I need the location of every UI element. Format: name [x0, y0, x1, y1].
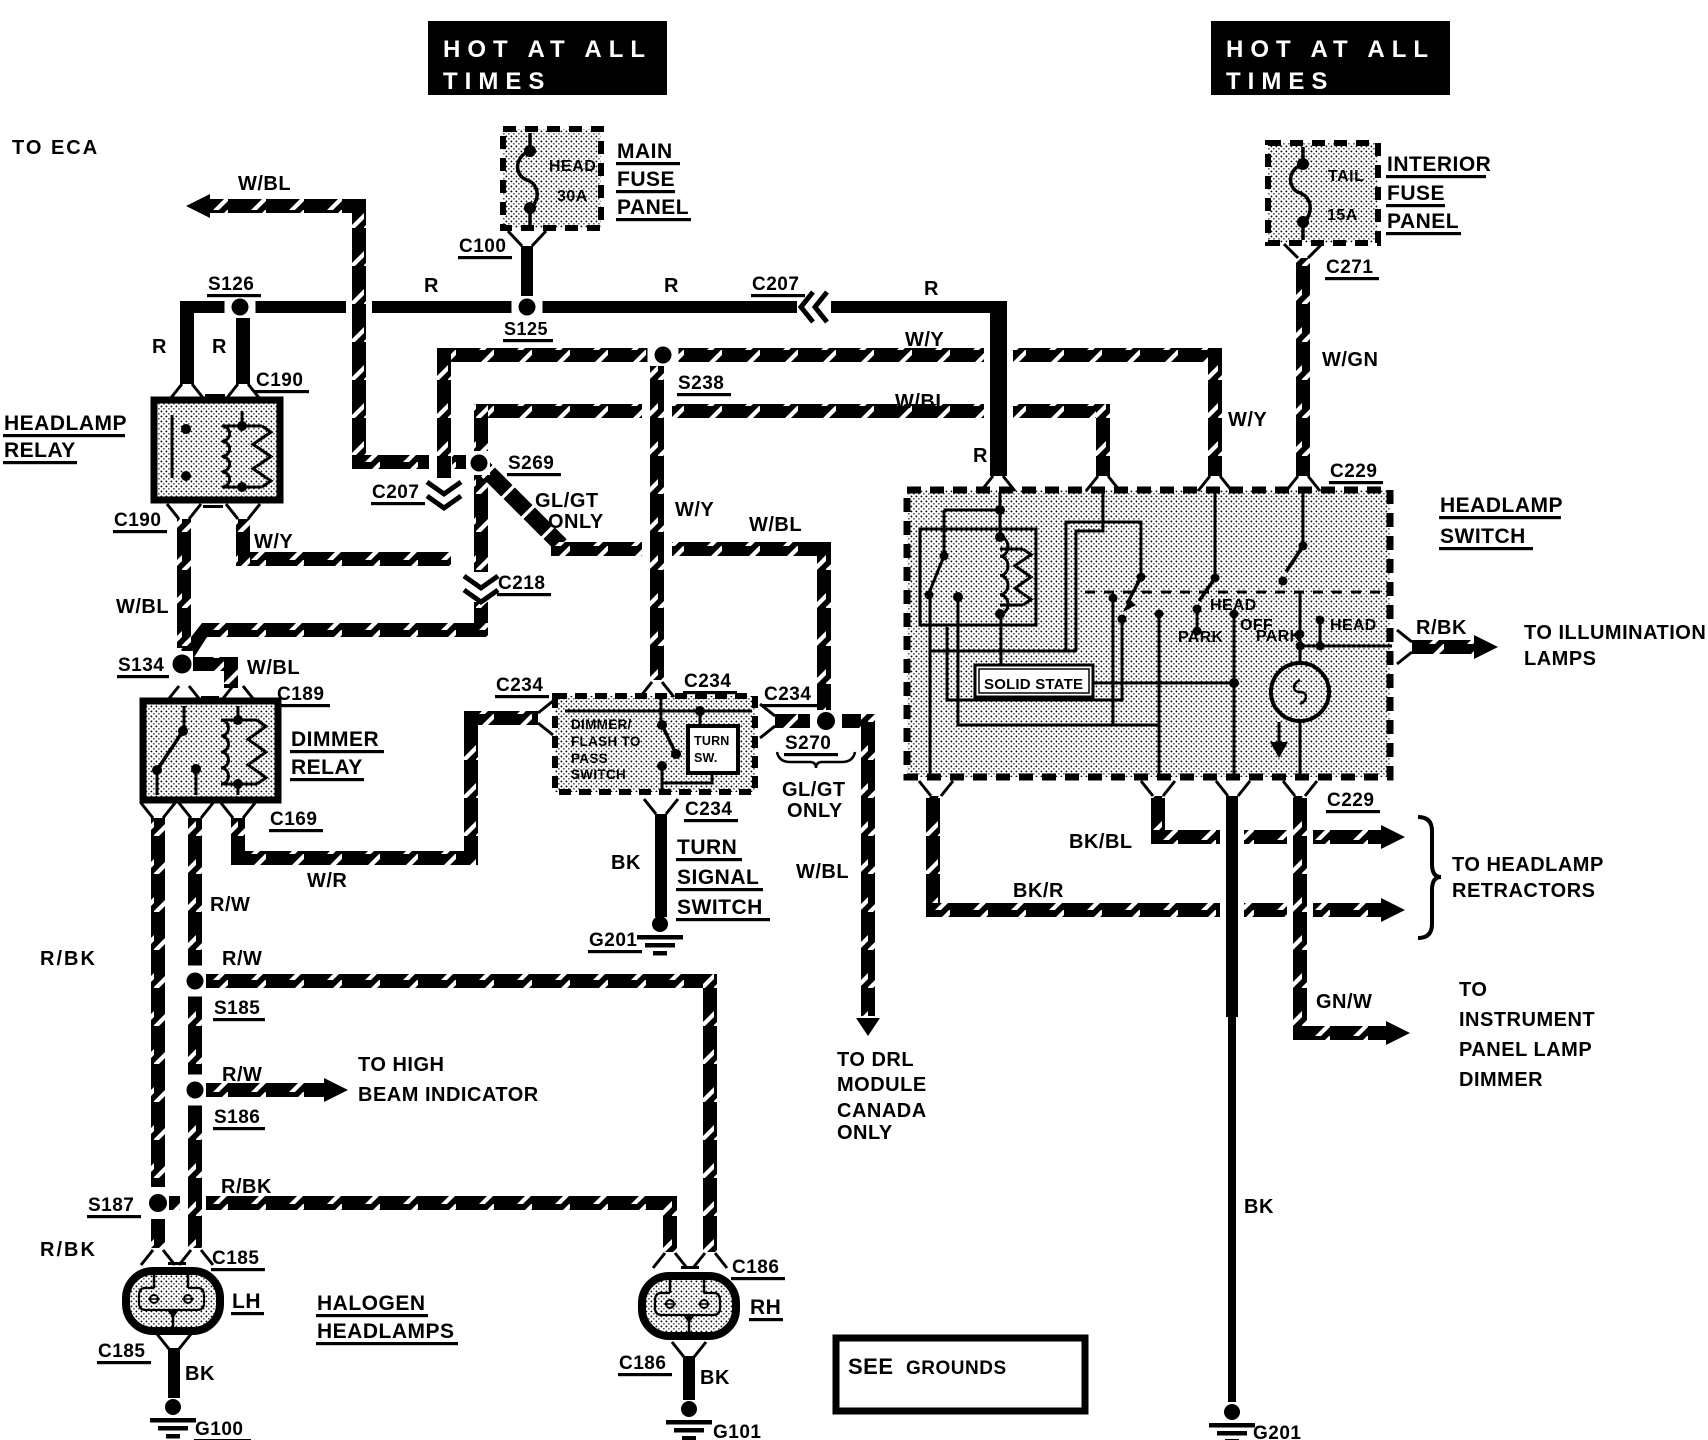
wire R/W from S185 to RH headlamp [202, 974, 717, 1252]
svg-text:C234: C234 [496, 675, 543, 696]
svg-text:HEADLAMP: HEADLAMP [1440, 494, 1563, 517]
ground G201 (headlamp switch BK) [1224, 1404, 1240, 1420]
switch illumination lamp [1271, 663, 1329, 721]
svg-text:RH: RH [750, 1296, 781, 1319]
label box HOT AT ALL TIMES (right) [1211, 21, 1450, 95]
svg-text:R: R [424, 275, 439, 297]
RH halogen headlamp [642, 1276, 736, 1336]
svg-text:DIMMER: DIMMER [1459, 1069, 1543, 1091]
svg-text:W/BL: W/BL [796, 861, 849, 883]
svg-text:LAMPS: LAMPS [1524, 648, 1597, 670]
svg-text:R/W: R/W [222, 1064, 262, 1086]
svg-text:HALOGEN: HALOGEN [317, 1292, 426, 1315]
brace under S270 [777, 752, 855, 768]
connector C218 [469, 572, 493, 602]
svg-text:W/BL: W/BL [749, 514, 802, 536]
wire BK turn signal switch to G201 [655, 814, 667, 917]
fuse HEAD 30A [518, 133, 538, 226]
svg-text:C229: C229 [1330, 461, 1377, 482]
main fuse panel box [503, 129, 601, 228]
svg-text:W/BL: W/BL [116, 596, 169, 618]
svg-text:C234: C234 [764, 684, 811, 705]
ground G100 [165, 1399, 181, 1415]
svg-text:FUSE: FUSE [617, 168, 675, 191]
wire W/BL S134 stub to dimmer relay pin B [192, 657, 238, 688]
wire R/W dimmer relay pin2 down to C185 (LH) [188, 818, 202, 1248]
svg-text:R: R [212, 336, 227, 358]
svg-text:GROUNDS: GROUNDS [906, 1358, 1007, 1379]
headlamp switch box [907, 490, 1392, 777]
connector C190 bottom [167, 504, 260, 519]
switch internal relay [920, 529, 1036, 625]
svg-text:W/BL: W/BL [238, 173, 291, 195]
svg-text:TAIL: TAIL [1328, 168, 1364, 185]
svg-text:TO ECA: TO ECA [12, 137, 99, 159]
connector C185 bottom [157, 1334, 191, 1349]
svg-text:ONLY: ONLY [787, 800, 843, 822]
svg-text:HOT AT ALL: HOT AT ALL [443, 36, 652, 63]
LH halogen headlamp [126, 1271, 220, 1331]
relay coil [221, 720, 229, 784]
svg-text:C234: C234 [685, 799, 732, 820]
svg-text:ONLY: ONLY [548, 511, 604, 533]
svg-text:HEAD: HEAD [549, 158, 596, 175]
svg-text:TIMES: TIMES [443, 68, 551, 95]
node S270 [810, 710, 842, 732]
wire R bus from S126 to headlamp switch [182, 301, 1007, 476]
svg-text:C100: C100 [459, 236, 506, 257]
wire GN/W from switch exit4 to instrument panel lamp dimmer [1293, 796, 1410, 1045]
svg-text:R/BK: R/BK [40, 948, 97, 970]
node S238 [648, 344, 679, 366]
svg-text:C169: C169 [270, 809, 317, 830]
svg-text:TO: TO [1459, 979, 1487, 1001]
svg-text:S185: S185 [214, 998, 260, 1019]
svg-text:R: R [152, 336, 167, 358]
wire W/R dimmer relay pin3 to turn signal switch [231, 711, 538, 865]
connector C229 bottom [919, 781, 1317, 796]
svg-text:C185: C185 [98, 1341, 145, 1362]
svg-text:W/Y: W/Y [254, 531, 293, 553]
svg-text:PASS: PASS [571, 751, 608, 766]
wire W/BL from C218 to S134 [181, 623, 488, 659]
svg-text:GN/W: GN/W [1316, 991, 1372, 1013]
wire BK/BL from switch exit2 to headlamp retractors [1151, 796, 1405, 849]
relay resistor [248, 720, 266, 784]
svg-text:C190: C190 [114, 510, 161, 531]
svg-text:C185: C185 [212, 1248, 259, 1269]
svg-text:BK: BK [700, 1367, 730, 1389]
svg-text:S187: S187 [88, 1195, 134, 1216]
node S187 [147, 1187, 169, 1219]
svg-text:LH: LH [232, 1290, 261, 1313]
svg-text:15A: 15A [1327, 207, 1358, 224]
svg-text:SWITCH: SWITCH [677, 896, 763, 919]
svg-text:PANEL: PANEL [1387, 210, 1459, 233]
svg-text:HEADLAMP: HEADLAMP [4, 412, 127, 435]
svg-text:HEADLAMPS: HEADLAMPS [317, 1320, 455, 1343]
svg-text:MODULE: MODULE [837, 1074, 927, 1096]
dimmer relay box [143, 701, 278, 800]
svg-text:TIMES: TIMES [1226, 68, 1334, 95]
svg-text:R: R [664, 275, 679, 297]
connector C234 right [760, 704, 775, 738]
svg-text:R: R [973, 445, 988, 467]
svg-text:PARK: PARK [1256, 628, 1301, 645]
svg-text:R/BK: R/BK [221, 1176, 272, 1198]
svg-text:INSTRUMENT: INSTRUMENT [1459, 1009, 1595, 1031]
svg-text:SW.: SW. [694, 751, 718, 765]
see grounds note box [836, 1338, 1085, 1411]
svg-text:BEAM INDICATOR: BEAM INDICATOR [358, 1084, 539, 1106]
svg-text:G201: G201 [1253, 1423, 1301, 1440]
svg-text:C186: C186 [732, 1257, 779, 1278]
svg-text:PARK: PARK [1178, 629, 1223, 646]
svg-text:R/W: R/W [222, 948, 262, 970]
svg-text:TO ILLUMINATION: TO ILLUMINATION [1524, 622, 1706, 644]
wire W/Y bus [236, 348, 1222, 566]
svg-text:S186: S186 [214, 1107, 260, 1128]
connector R/BK output [1397, 630, 1412, 664]
connector C190 top [170, 384, 260, 399]
svg-text:30A: 30A [557, 188, 588, 205]
node S126 [225, 296, 256, 318]
svg-text:TO DRL: TO DRL [837, 1049, 914, 1071]
svg-text:W/GN: W/GN [1322, 349, 1378, 371]
svg-text:HEAD: HEAD [1330, 617, 1377, 634]
solid state module [975, 665, 1093, 697]
svg-text:G101: G101 [713, 1422, 761, 1440]
svg-text:DIMMER/: DIMMER/ [571, 717, 632, 732]
svg-text:HEAD: HEAD [1210, 597, 1257, 614]
svg-text:PANEL: PANEL [617, 196, 689, 219]
connector C271 [1284, 244, 1322, 258]
svg-text:R: R [924, 278, 939, 300]
connector C207 on W/Y vertical [432, 478, 456, 508]
wire R from S126 to headlamp relay C190 [180, 301, 250, 384]
svg-text:W/Y: W/Y [1228, 409, 1267, 431]
node S134 [171, 651, 193, 677]
connector C100 [508, 231, 546, 246]
svg-text:C229: C229 [1327, 790, 1374, 811]
svg-text:S270: S270 [785, 733, 831, 754]
svg-text:S134: S134 [118, 655, 164, 676]
wire BK/R from switch exit1 to headlamp retractors [926, 796, 1405, 922]
connector C207 break on R bus [797, 297, 827, 317]
svg-text:W/BL: W/BL [247, 657, 300, 679]
turn signal switch box (dimmer/flash to pass) [555, 696, 755, 792]
svg-text:S238: S238 [678, 373, 724, 394]
wire R/W from S186 to high beam indicator [202, 1078, 348, 1102]
svg-text:R/BK: R/BK [1416, 617, 1467, 639]
svg-text:MAIN: MAIN [617, 140, 673, 163]
svg-text:BK: BK [185, 1363, 215, 1385]
svg-text:C207: C207 [372, 482, 419, 503]
svg-text:S126: S126 [208, 274, 254, 295]
svg-text:PANEL LAMP: PANEL LAMP [1459, 1039, 1592, 1061]
svg-text:S269: S269 [508, 453, 554, 474]
relay resistor [253, 426, 271, 487]
connector C189 [167, 686, 255, 701]
brace to headlamp retractors [1418, 817, 1441, 938]
connector C234 left [538, 701, 553, 735]
svg-text:S125: S125 [504, 319, 548, 339]
node S186 [184, 1075, 206, 1106]
svg-text:TURN: TURN [677, 836, 737, 859]
ground G201 (turn signal switch) [652, 916, 668, 932]
svg-text:HOT AT ALL: HOT AT ALL [1226, 36, 1435, 63]
svg-text:SEE: SEE [848, 1354, 894, 1379]
wire R/BK from S187 to RH headlamp [168, 1196, 677, 1252]
svg-text:W/Y: W/Y [905, 329, 944, 351]
wire R/BK dimmer relay pin1 down to C185 (LH) [151, 818, 165, 1248]
connector C234 bottom [644, 799, 678, 814]
wire BK LH headlamp to G100 [168, 1348, 180, 1398]
node S269 [468, 451, 490, 475]
svg-text:INTERIOR: INTERIOR [1387, 153, 1491, 176]
connector C186 top [653, 1253, 727, 1269]
svg-text:W/BL: W/BL [895, 391, 948, 413]
fuse TAIL 15A [1291, 147, 1311, 240]
svg-text:SOLID STATE: SOLID STATE [984, 676, 1083, 693]
svg-text:TURN: TURN [694, 734, 730, 748]
svg-text:TO HEADLAMP: TO HEADLAMP [1452, 854, 1604, 876]
svg-text:BK/BL: BK/BL [1069, 831, 1133, 853]
svg-text:TO HIGH: TO HIGH [358, 1054, 444, 1076]
headlamp relay box [154, 400, 280, 500]
svg-text:C189: C189 [277, 684, 324, 705]
wire W/BL headlamp relay left pin down to S134 [177, 519, 191, 648]
wire W/BL bus [474, 404, 1110, 637]
relay coil [222, 426, 230, 487]
connector C234 top [640, 682, 674, 697]
svg-text:DIMMER: DIMMER [291, 728, 379, 751]
svg-text:W/Y: W/Y [675, 499, 714, 521]
connector C185 top [141, 1250, 213, 1265]
svg-text:GL/GT: GL/GT [782, 779, 846, 801]
svg-text:BK: BK [611, 852, 641, 874]
svg-text:C271: C271 [1326, 257, 1373, 278]
label box HOT AT ALL TIMES (left) [428, 21, 667, 95]
svg-text:SIGNAL: SIGNAL [677, 866, 759, 889]
svg-text:SWITCH: SWITCH [571, 767, 626, 782]
svg-text:FLASH TO: FLASH TO [571, 734, 641, 749]
svg-text:CANADA: CANADA [837, 1100, 927, 1122]
svg-text:C218: C218 [498, 573, 545, 594]
ground G101 [681, 1401, 697, 1417]
svg-text:FUSE: FUSE [1387, 182, 1445, 205]
svg-text:GL/GT: GL/GT [535, 490, 599, 512]
svg-text:RETRACTORS: RETRACTORS [1452, 880, 1596, 902]
connector C186 bottom [672, 1342, 706, 1357]
wire from main fuse panel C100 down to S125 [521, 246, 533, 303]
connector C229 top [981, 476, 1320, 491]
svg-text:RELAY: RELAY [291, 756, 363, 779]
svg-text:C190: C190 [256, 370, 303, 391]
node S185 [184, 966, 206, 997]
svg-text:C234: C234 [684, 671, 731, 692]
svg-text:C186: C186 [619, 1353, 666, 1374]
relay switch contact [171, 415, 174, 478]
svg-text:C207: C207 [752, 274, 799, 295]
svg-text:ONLY: ONLY [837, 1122, 893, 1144]
svg-text:W/R: W/R [307, 870, 347, 892]
svg-text:BK/R: BK/R [1013, 880, 1064, 902]
wire W/BL GL/GT only: S269 diagonal to S270 and DRL [473, 457, 880, 1036]
wire W/GN from interior fuse panel to switch entry4 [1296, 258, 1310, 476]
turn sw sub-box [688, 726, 738, 773]
svg-text:R/BK: R/BK [40, 1239, 97, 1261]
connector C169 [141, 803, 255, 818]
wire R/BK switch output to illumination lamps [1412, 635, 1498, 659]
interior fuse panel box [1268, 143, 1378, 243]
svg-text:RELAY: RELAY [4, 439, 76, 462]
svg-text:G100: G100 [195, 1419, 243, 1440]
relay switch arm [157, 731, 183, 770]
wire BK from switch exit3 to G201 [1226, 796, 1238, 1402]
svg-text:R/W: R/W [210, 894, 250, 916]
wire W/Y from S238 down to turn signal switch C234 [650, 362, 664, 680]
node S125 [512, 296, 543, 318]
svg-text:SWITCH: SWITCH [1440, 525, 1526, 548]
wire W/BL to ECA (arrow left, down, to S269) [186, 194, 466, 469]
internal lines [565, 710, 700, 713]
wire BK RH headlamp to G101 [683, 1356, 695, 1400]
svg-text:BK: BK [1244, 1196, 1274, 1218]
svg-text:G201: G201 [589, 930, 637, 951]
